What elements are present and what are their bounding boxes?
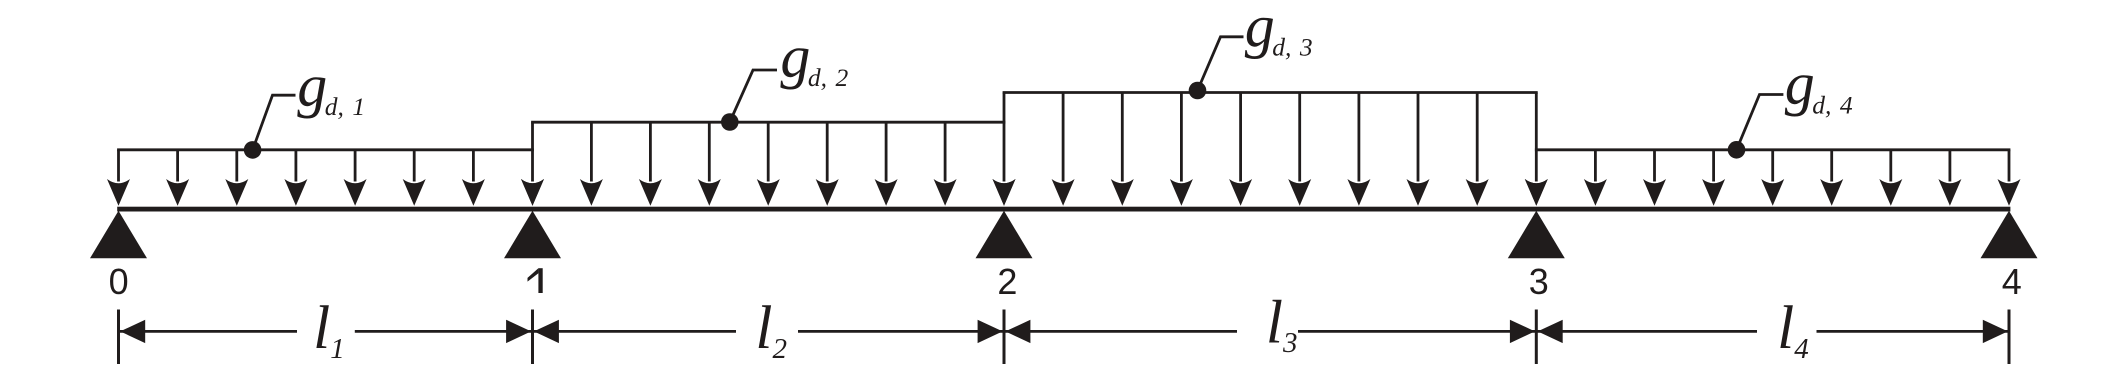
pin support 2 [976, 211, 1033, 258]
pin support 1 [504, 211, 561, 258]
distributed load arrows g_d,1 span 0-1 [107, 150, 544, 206]
dimension tick at support 0 [117, 310, 120, 365]
dimension line segment l4 right [1817, 330, 2010, 333]
svg-text:gd,1: gd,1 [297, 52, 365, 121]
load line g_d,3 span 2-3 [1003, 91, 1538, 94]
pin support 3 [1508, 211, 1565, 258]
dimension line segment l2 left [533, 330, 737, 333]
dimension line segment l1 left [119, 330, 297, 333]
leader line for g_d,4 [1737, 95, 1784, 150]
load profile vertical edge / arrow shaft at support 1 [531, 122, 534, 181]
svg-text:l3: l3 [1266, 288, 1298, 359]
svg-text:0: 0 [109, 261, 129, 302]
svg-text:l2: l2 [755, 294, 787, 365]
dimension tick at support 1 [531, 310, 534, 365]
distributed load arrows g_d,3 span 2-3 [993, 93, 1548, 206]
svg-text:l4: l4 [1777, 294, 1809, 365]
dimension tick at support 4 [2008, 310, 2011, 365]
svg-text:2: 2 [997, 261, 1017, 302]
dimension tick at support 2 [1003, 310, 1006, 365]
leader dot g_d,4 [1728, 141, 1746, 159]
leader line for g_d,2 [730, 70, 777, 122]
dimension line segment l1 right [355, 330, 533, 333]
load line g_d,4 span 3-4 [1535, 148, 2011, 151]
load profile vertical edge / arrow shaft at support 3 [1535, 93, 1538, 182]
svg-text:4: 4 [2002, 261, 2022, 302]
leader dot g_d,2 [721, 113, 739, 131]
dimension arrowheads at tick 3 [1510, 320, 1563, 343]
load line g_d,2 span 1-2 [531, 121, 1005, 124]
pin support 0 [90, 211, 147, 258]
distributed load arrows g_d,2 span 1-2 [521, 122, 1016, 206]
dimension arrowhead at tick 4 (pointing right) [1983, 320, 2008, 343]
leader line for g_d,1 [253, 95, 296, 150]
dimension line segment l4 left [1536, 330, 1757, 333]
load profile vertical edge / arrow shaft at support 0 [117, 150, 120, 182]
dimension line segment l3 left [1004, 330, 1237, 333]
leader dot g_d,1 [244, 141, 262, 159]
dimension arrowheads at tick 2 [978, 320, 1031, 343]
load profile vertical edge / arrow shaft at support 2 [1003, 93, 1006, 182]
node label 1 [528, 268, 543, 293]
dimension arrowheads at tick 1 [506, 320, 559, 343]
svg-text:3: 3 [1529, 261, 1549, 302]
svg-text:l1: l1 [313, 294, 345, 365]
load line g_d,1 span 0-1 [117, 148, 534, 151]
svg-text:gd,2: gd,2 [780, 24, 848, 93]
leader line for g_d,3 [1198, 37, 1244, 91]
svg-text:gd,3: gd,3 [1245, 0, 1313, 62]
dimension line segment l3 right [1298, 330, 1536, 333]
beam (continuous beam line) [117, 207, 2010, 212]
load profile vertical edge / arrow shaft at support 4 [2008, 150, 2011, 182]
dimension arrowhead at tick 0 (pointing left) [120, 320, 145, 343]
dimension tick at support 3 [1535, 310, 1538, 365]
leader dot g_d,3 [1189, 82, 1207, 100]
dimension line segment l2 right [798, 330, 1004, 333]
svg-text:gd,4: gd,4 [1785, 51, 1853, 120]
distributed load arrows g_d,4 span 3-4 [1525, 150, 2021, 206]
pin support 4 [1981, 211, 2038, 258]
